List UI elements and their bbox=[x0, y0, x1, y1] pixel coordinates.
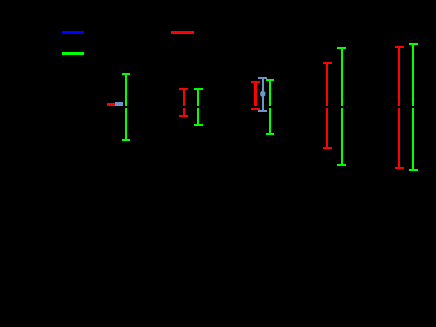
errorbar red point 5 bbox=[395, 46, 404, 48]
errorbar red point 2 bbox=[179, 88, 188, 90]
errorbar green point 2 bbox=[194, 88, 203, 90]
errorbar blue point 3 bbox=[258, 77, 267, 79]
legend sample red series bbox=[171, 31, 194, 34]
errorbar green point 5 bbox=[409, 43, 418, 45]
blue diamond marker point 3 bbox=[260, 90, 266, 98]
legend sample green series bbox=[62, 52, 84, 55]
legend sample blue series bbox=[62, 31, 84, 34]
errorbar red point 3 bbox=[251, 81, 260, 83]
errorbar green point 1 bbox=[122, 73, 130, 75]
errorbar red point 1 (collapsed) bbox=[107, 103, 116, 106]
errorbar red point 4 bbox=[323, 62, 332, 64]
errorbar green point 4 bbox=[337, 47, 346, 49]
black reference line y=1 (crosses red/green bars) bbox=[55, 106, 430, 108]
errorbar blue point 1 (collapsed) bbox=[115, 102, 123, 107]
errorbar green point 3 bbox=[266, 79, 274, 81]
